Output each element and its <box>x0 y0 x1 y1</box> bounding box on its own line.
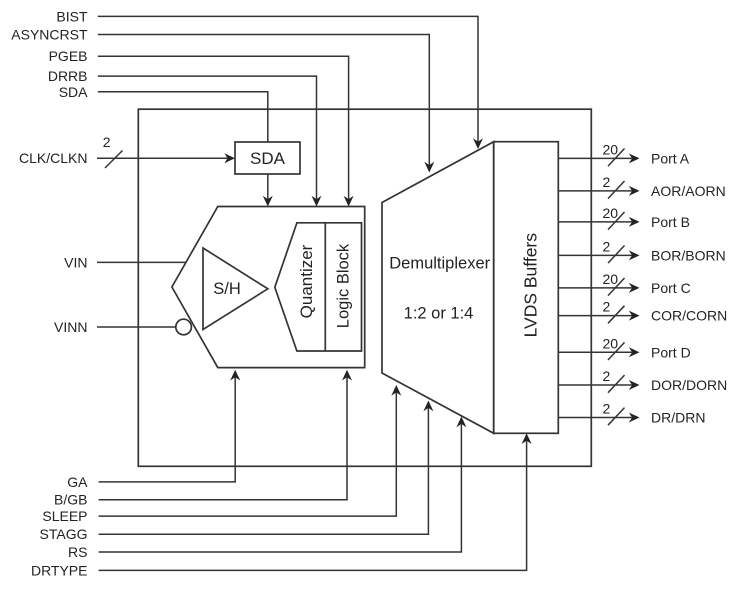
bus width numbers right <box>603 141 619 416</box>
svg-text:20: 20 <box>603 141 619 157</box>
wire GA <box>99 375 236 482</box>
outer chip boundary box <box>138 109 591 466</box>
svg-text:ASYNCRST: ASYNCRST <box>11 27 88 43</box>
slash bus COR <box>608 306 625 324</box>
svg-text:B/GB: B/GB <box>54 492 87 508</box>
arrow DR/DRN <box>629 413 640 423</box>
wire AOR/AORN <box>558 190 633 192</box>
slash bus Port B <box>608 212 625 230</box>
wire Port A <box>558 157 633 159</box>
svg-text:COR/CORN: COR/CORN <box>651 308 727 324</box>
wire DR/DRN <box>558 417 633 419</box>
wire DOR/DORN <box>558 384 633 386</box>
wire SLEEP <box>99 390 397 516</box>
arrow SDA into ADC <box>263 196 273 207</box>
arrow GA into ADC <box>230 370 240 381</box>
slash bus Port D <box>608 342 625 360</box>
block Quantizer / Logic Block hexagon <box>275 223 362 351</box>
svg-text:Logic Block: Logic Block <box>334 243 352 328</box>
wire RS <box>99 422 462 553</box>
block Demultiplexer trapezoid <box>382 142 494 434</box>
arrow Port C <box>629 283 640 293</box>
arrow Port A <box>629 153 640 163</box>
arrow Port B <box>629 217 640 227</box>
wire Port D <box>558 351 633 353</box>
wire Port B <box>558 221 633 223</box>
inverting input bubble <box>176 319 192 335</box>
svg-text:Port D: Port D <box>651 344 691 360</box>
wire COR/CORN <box>558 315 633 317</box>
arrow SLEEP into demux <box>391 385 401 396</box>
wire BOR/BORN <box>558 254 633 256</box>
slash bus Port C <box>608 278 625 296</box>
wire Port C <box>558 287 633 289</box>
arrow ASYNCRST into demux <box>424 162 434 173</box>
svg-text:2: 2 <box>603 401 611 417</box>
slash bus Port A <box>608 149 625 167</box>
arrow DRRB into ADC <box>312 196 322 207</box>
svg-text:2: 2 <box>603 174 611 190</box>
svg-text:20: 20 <box>603 205 619 221</box>
block LVDS Buffers <box>494 142 559 434</box>
wire SDA box to ADC <box>267 174 269 202</box>
svg-text:VIN: VIN <box>64 254 87 270</box>
divider Quantizer | Logic Block <box>324 223 326 351</box>
arrow AOR/AORN <box>629 186 640 196</box>
wire SDA label to box <box>98 92 268 142</box>
arrow CLK into SDA box <box>224 153 235 163</box>
svg-text:Port C: Port C <box>651 280 691 296</box>
svg-text:20: 20 <box>603 335 619 351</box>
svg-text:BOR/BORN: BOR/BORN <box>651 247 726 263</box>
svg-text:AOR/AORN: AOR/AORN <box>651 183 726 199</box>
svg-text:Quantizer: Quantizer <box>297 244 316 318</box>
pin labels right <box>651 150 727 425</box>
svg-text:LVDS Buffers: LVDS Buffers <box>521 233 541 338</box>
slash bus AOR <box>608 181 625 199</box>
svg-text:DRRB: DRRB <box>48 68 88 84</box>
block ADC core pentagon <box>172 207 365 368</box>
arrow BIST into demux <box>473 138 483 149</box>
svg-text:SDA: SDA <box>59 84 88 100</box>
arrow RS into demux <box>456 417 466 428</box>
svg-text:GA: GA <box>67 474 88 490</box>
svg-text:2: 2 <box>103 134 111 150</box>
svg-text:SLEEP: SLEEP <box>42 508 87 524</box>
wire BIST <box>98 16 478 144</box>
slash bus DR <box>608 408 625 426</box>
wire VIN <box>97 261 186 263</box>
wire STAGG <box>99 406 429 535</box>
svg-text:2: 2 <box>603 299 611 315</box>
output wires <box>558 149 633 426</box>
svg-text:RS: RS <box>68 544 87 560</box>
arrow DRTYPE into LVDS <box>522 433 532 444</box>
wire B/GB <box>99 375 347 500</box>
block labels <box>213 149 540 338</box>
slash bus CLK <box>105 151 123 169</box>
svg-text:VINN: VINN <box>54 319 87 335</box>
svg-text:DR/DRN: DR/DRN <box>651 410 705 426</box>
svg-text:DOR/DORN: DOR/DORN <box>651 377 727 393</box>
svg-text:STAGG: STAGG <box>40 526 88 542</box>
wire DRTYPE <box>99 438 527 570</box>
arrow DOR/DORN <box>629 380 640 390</box>
svg-text:Port B: Port B <box>651 214 690 230</box>
pin labels left top <box>11 8 88 578</box>
block SDA (clock conditioning) <box>235 142 300 174</box>
arrowheads <box>224 138 531 444</box>
wire CLK/CLKN <box>97 157 230 159</box>
arrow Port D <box>629 347 640 357</box>
svg-text:2: 2 <box>603 238 611 254</box>
amplifier S/H triangle <box>203 248 268 330</box>
arrow B/GB into ADC <box>342 370 352 381</box>
svg-text:PGEB: PGEB <box>49 48 88 64</box>
output arrowheads <box>629 153 640 422</box>
svg-text:DRTYPE: DRTYPE <box>31 562 88 578</box>
svg-text:Port A: Port A <box>651 150 690 166</box>
svg-text:S/H: S/H <box>213 280 241 298</box>
wire VINN <box>97 326 176 328</box>
wire ASYNCRST <box>98 35 430 169</box>
svg-text:20: 20 <box>603 271 619 287</box>
svg-text:1:2 or 1:4: 1:2 or 1:4 <box>404 305 474 323</box>
slash bus BOR <box>608 246 625 264</box>
svg-text:BIST: BIST <box>56 8 88 24</box>
svg-text:SDA: SDA <box>250 149 286 168</box>
slash bus DOR <box>608 375 625 393</box>
arrow BOR/BORN <box>629 250 640 260</box>
svg-text:Demultiplexer: Demultiplexer <box>389 254 490 272</box>
arrow STAGG into demux <box>423 401 433 412</box>
svg-text:2: 2 <box>603 368 611 384</box>
arrow PGEB into ADC <box>344 196 354 207</box>
wire DRRB <box>98 76 317 202</box>
wire PGEB <box>98 56 349 202</box>
svg-text:CLK/CLKN: CLK/CLKN <box>19 150 87 166</box>
arrow COR/CORN <box>629 311 640 321</box>
